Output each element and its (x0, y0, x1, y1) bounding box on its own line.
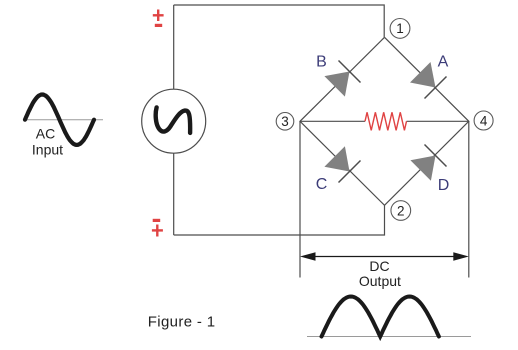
svg-text:Input: Input (32, 142, 63, 158)
resistor (load) red zigzag (365, 112, 407, 130)
wire left rail: node 3 down (299, 121, 301, 277)
wire left vertical below source (173, 153, 175, 235)
svg-text:4: 4 (480, 113, 488, 128)
wire resistor right lead (407, 120, 469, 122)
polarity + (top) (153, 10, 164, 22)
wire right rail: node 4 down (468, 121, 470, 277)
diode C triangle (324, 146, 349, 171)
svg-text:DC: DC (369, 258, 389, 274)
arrowhead right (453, 252, 469, 261)
svg-text:2: 2 (397, 203, 405, 218)
DC output measure line (311, 256, 457, 258)
wire left vertical above source (173, 5, 175, 89)
DC output waveform humps (322, 297, 439, 337)
node 2 circle (391, 201, 411, 221)
node 1 circle (390, 19, 410, 39)
polarity - (bottom) (153, 219, 161, 222)
svg-text:A: A (438, 54, 449, 71)
arrowhead left (300, 252, 316, 261)
svg-text:AC: AC (36, 126, 55, 142)
AC source sine squiggle (156, 107, 190, 132)
diode B cathode bar (339, 61, 361, 83)
svg-text:Output: Output (359, 273, 401, 289)
DC output waveform baseline (307, 336, 471, 338)
diode D triangle (410, 156, 435, 181)
polarity - (top) (155, 24, 162, 27)
node 4 circle (474, 111, 493, 130)
diode C cathode bar (339, 161, 361, 183)
AC input waveform sine (25, 95, 94, 145)
AC source V1 circle (142, 89, 206, 153)
AC input waveform baseline (24, 119, 103, 121)
svg-text:C: C (316, 176, 328, 193)
diode A cathode bar (425, 77, 447, 99)
diode D cathode bar (425, 145, 447, 167)
wire bottom loop: AC source bottom to node 2 (174, 205, 385, 235)
diode A triangle (410, 62, 436, 88)
svg-text:Figure - 1: Figure - 1 (148, 314, 216, 331)
polarity + (bottom) (152, 225, 163, 237)
node 3 circle (276, 113, 294, 131)
wire resistor left lead (300, 120, 365, 122)
wire bridge diamond edges (300, 37, 469, 205)
diode B triangle (324, 72, 349, 97)
svg-text:B: B (316, 54, 327, 71)
svg-text:1: 1 (396, 21, 404, 36)
svg-text:D: D (438, 177, 450, 194)
wire top loop: AC source top to node 1 (174, 5, 385, 37)
svg-text:3: 3 (281, 114, 289, 129)
